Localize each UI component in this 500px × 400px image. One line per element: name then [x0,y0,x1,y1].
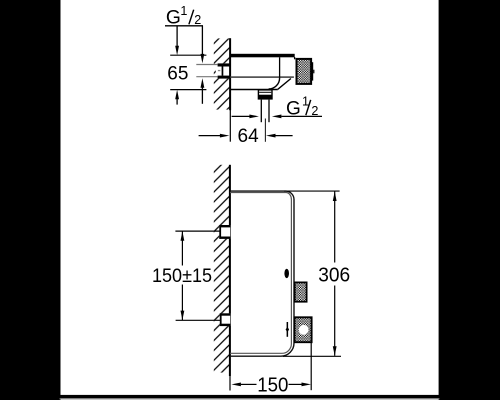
svg-text:65: 65 [167,63,188,84]
svg-text:1: 1 [180,4,187,18]
svg-text:150±15: 150±15 [152,266,212,287]
svg-text:306: 306 [318,264,350,286]
svg-text:2: 2 [311,104,318,118]
svg-text:G: G [166,8,181,29]
svg-text:150: 150 [257,374,288,396]
svg-text:G: G [286,97,301,119]
svg-text:64: 64 [238,126,260,147]
svg-text:2: 2 [194,13,201,27]
